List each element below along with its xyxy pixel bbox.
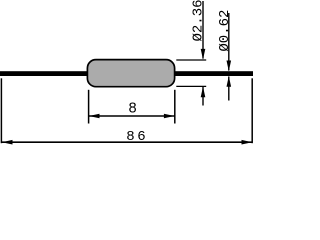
extension line below lead right end (for overall length 86) xyxy=(251,78,253,143)
arrowhead pointing down at lead top xyxy=(227,61,232,72)
arrowhead pointing up at lead bottom xyxy=(227,76,232,87)
svg-text:8: 8 xyxy=(128,102,137,118)
arrowhead pointing left (body length) xyxy=(89,114,100,119)
extension line below body left edge (for body length 8) xyxy=(88,90,90,124)
dimension line shaft upper (body diameter 2.36) xyxy=(202,1,204,59)
svg-text:Ø0.62: Ø0.62 xyxy=(217,10,233,52)
arrowhead pointing down at body top xyxy=(201,49,206,60)
dimension line shaft upper (lead diameter 0.62) xyxy=(228,13,230,71)
witness line from body top edge xyxy=(176,59,206,61)
dimension line shaft lower (body diameter 2.36) xyxy=(202,87,204,106)
dimension line body length 8 xyxy=(89,115,175,117)
arrowhead pointing left (overall length) xyxy=(2,140,13,145)
extension line below body right edge (for body length 8) xyxy=(174,90,176,124)
dimension line overall length 86 xyxy=(2,141,253,143)
extension line below lead left end (for overall length 86) xyxy=(0,78,2,143)
arrowhead pointing right (overall length) xyxy=(242,140,253,145)
dimension line shaft lower (lead diameter 0.62) xyxy=(228,77,230,101)
witness line from body bottom edge xyxy=(176,85,206,87)
arrowhead pointing right (body length) xyxy=(164,114,175,119)
svg-text:86: 86 xyxy=(126,129,148,145)
svg-text:Ø2.36: Ø2.36 xyxy=(190,0,206,42)
component body (resistor) xyxy=(87,60,174,87)
arrowhead pointing up at body bottom xyxy=(201,87,206,98)
lead wire (axial lead, horizontal) xyxy=(0,71,253,76)
